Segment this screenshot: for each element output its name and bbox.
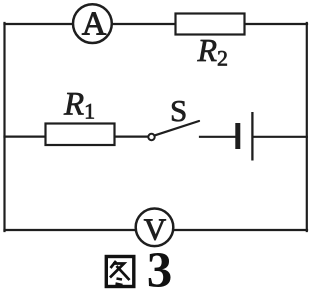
caption: character 图 (drawn) [106, 257, 134, 287]
switch S [148, 93, 199, 140]
resistor R2 [176, 14, 245, 71]
wire middle left (node to switch) [5, 136, 150, 138]
wire switch to battery [200, 136, 236, 138]
wire battery to right node [253, 136, 307, 138]
voltmeter V [136, 209, 174, 247]
wire top [5, 23, 308, 25]
resistor R1 [46, 87, 115, 146]
wire bottom [5, 229, 308, 231]
battery BT1 [238, 112, 253, 161]
wire left [3, 23, 5, 231]
svg-text:S: S [170, 93, 187, 128]
svg-text:A: A [82, 6, 107, 43]
ammeter A [73, 4, 112, 43]
wire right [306, 23, 308, 231]
svg-text:3: 3 [147, 243, 173, 293]
svg-text:V: V [144, 212, 167, 247]
